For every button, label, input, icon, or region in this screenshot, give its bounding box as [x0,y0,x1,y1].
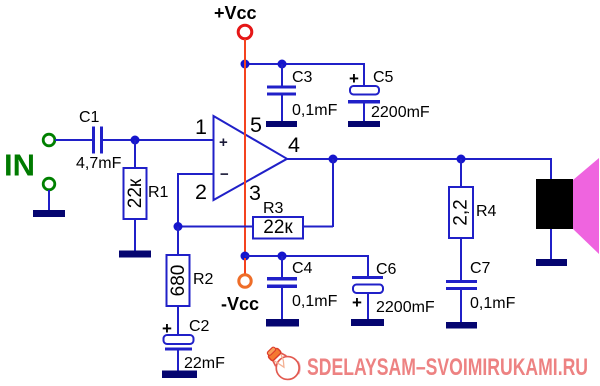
svg-text:-Vcc: -Vcc [221,294,259,314]
svg-text:+: + [352,293,362,312]
wire C7 to ground [460,289,462,323]
svg-text:C1: C1 [79,109,100,126]
svg-text:2: 2 [195,180,207,204]
terminal +Vcc [238,25,252,39]
svg-text:+Vcc: +Vcc [214,3,257,23]
ground C3 [266,121,297,127]
capacitor C4 [267,277,297,288]
wire C4 to ground [281,287,283,320]
wire input terminal to C1 [55,139,93,141]
ground input [33,210,65,217]
wire bottom supply bus [245,256,368,277]
svg-text:22mF: 22mF [184,355,225,372]
svg-text:C2: C2 [189,318,210,335]
speaker LS1 body [536,179,573,229]
logo light bulb icon [262,342,304,384]
svg-text:0,1mF: 0,1mF [292,293,338,310]
wire output to R4 [460,159,462,187]
svg-text:2200mF: 2200mF [376,299,435,316]
wire R1 to ground [134,219,136,251]
svg-text:0,1mF: 0,1mF [292,102,338,119]
wire C2 to ground [177,349,179,372]
junction -Vcc rail / bus [241,252,250,261]
wire +Vcc supply rail (red) [244,39,246,254]
speaker LS1 cone [573,158,599,254]
ground C4 [266,319,299,327]
wire node to R2 [177,227,179,256]
capacitor C2 [164,335,194,351]
svg-text:3: 3 [249,181,261,205]
input terminal top [43,134,55,146]
svg-text:C7: C7 [470,260,491,277]
svg-text:0,1mF: 0,1mF [470,295,516,312]
wire input bottom terminal to ground [48,190,50,211]
capacitor C3 [267,86,296,96]
wire bus to C4 [281,256,283,278]
ground R1 [119,251,151,258]
svg-text:1: 1 [195,115,207,139]
resistor R1 [124,168,147,219]
junction +Vcc rail / bus [241,60,250,69]
svg-text:C4: C4 [292,260,313,277]
svg-text:C5: C5 [373,69,394,86]
svg-text:R1: R1 [148,184,169,201]
resistor R4 [449,187,473,238]
wire R2 to C2 [177,306,179,336]
ground speaker [536,259,567,266]
svg-text:22к: 22к [125,178,146,208]
wire C5 to ground [363,103,365,122]
junction output / R4 tap [457,155,466,164]
wire C6 to ground [367,292,369,320]
junction output / feedback tap [329,155,338,164]
wire inverting input [178,174,214,226]
svg-text:R3: R3 [263,200,284,217]
wire R4 to C7 [460,238,462,281]
wire C3 to ground [281,95,283,122]
svg-text:5: 5 [250,113,262,137]
wire junction to R1 [134,140,136,168]
wire C1 to op-amp noninverting input [103,139,214,141]
wire bus to C3 [281,64,283,86]
svg-text:C3: C3 [292,69,313,86]
junction feedback / R2 node [174,222,183,231]
svg-text:4,7mF: 4,7mF [76,155,122,172]
svg-text:22к: 22к [263,217,293,238]
wire feedback riser [332,159,334,227]
capacitor C7 [446,280,477,290]
svg-text:C6: C6 [376,261,397,278]
junction C3 tap [278,60,287,69]
wire feedback R3 right [303,226,333,228]
capacitor C1 [92,127,103,154]
capacitor C5 [348,86,380,104]
wire -Vcc terminal stub (red) [244,258,246,275]
op-amp U1 [214,116,288,200]
svg-text:+: + [219,134,228,151]
svg-text:R4: R4 [476,203,497,220]
terminal -Vcc [239,275,251,287]
svg-text:2200mF: 2200mF [371,104,430,121]
ground C5 [348,121,380,127]
svg-text:2,2: 2,2 [451,199,472,225]
svg-text:R2: R2 [193,271,214,288]
svg-text:SDELAYSAM–SVOIMIRUKAMI.RU: SDELAYSAM–SVOIMIRUKAMI.RU [307,354,588,381]
junction C4 tap [278,252,287,261]
wire speaker to ground [550,229,552,260]
wire output [287,159,551,180]
wire feedback R3 left to node [178,226,253,228]
capacitor C6 [352,276,383,293]
input terminal bottom [43,178,55,190]
ground C7 [446,322,477,329]
ground C6 [351,319,384,326]
resistor R2 [167,255,190,306]
wire top supply bus [245,64,364,87]
svg-text:680: 680 [168,265,189,297]
svg-text:4: 4 [288,133,300,157]
junction node input / R1 tap [131,136,140,145]
resistor R3 [253,217,303,239]
svg-text:IN: IN [4,148,35,183]
ground C2 [162,371,197,379]
svg-text:−: − [220,166,229,183]
